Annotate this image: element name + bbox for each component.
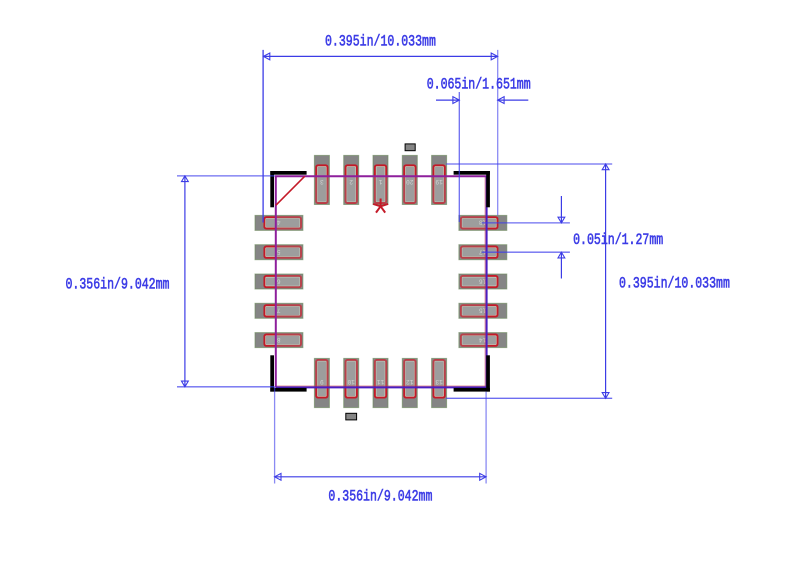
svg-text:12: 12 — [406, 378, 414, 385]
dimension line 0.395in/10.033mm (right vertical) — [602, 164, 609, 398]
svg-text:0.356in/9.042mm: 0.356in/9.042mm — [328, 488, 432, 506]
dimension line 0.065in/1.651mm with outside arrows — [436, 97, 528, 104]
extension line, top lead tips (y=164) — [446, 163, 612, 165]
pad 10 (bottom row) — [344, 358, 359, 407]
extension line, pad 17 centerline — [482, 251, 570, 253]
pad 9 (bottom row) — [314, 358, 329, 407]
dimension line 0.395in/10.033mm (top) — [263, 53, 497, 60]
pad 17 (right column) — [459, 245, 507, 260]
component origin marker (red asterisk) — [373, 199, 388, 213]
pad 6 (left column) — [255, 274, 303, 289]
pad 16 (right column) — [459, 274, 507, 289]
dimension extension line, left lead tips (x=263) — [262, 50, 264, 223]
component body outline right edge (indigo) — [486, 176, 488, 387]
pad 5 (left column) — [255, 245, 303, 260]
silkscreen corner bracket top-right — [454, 171, 490, 207]
dimension line 0.05in/1.27mm pitch, outside arrows — [558, 196, 565, 279]
silkscreen polarity rectangle (top, near pad 20) — [405, 144, 415, 151]
pad 19 (top row) — [432, 155, 447, 204]
component body outline left edge (magenta) — [275, 176, 277, 387]
extension line, body right edge (x=486.1) — [485, 392, 487, 484]
dimension extension line x=459.3 — [458, 92, 460, 222]
svg-text:10: 10 — [347, 378, 355, 385]
silkscreen polarity rectangle (bottom, near pad 10) — [346, 413, 357, 420]
svg-text:3: 3 — [320, 178, 324, 185]
svg-text:2: 2 — [349, 178, 353, 185]
svg-text:0.395in/10.033mm: 0.395in/10.033mm — [325, 33, 436, 51]
silkscreen corner bracket bottom-right — [454, 355, 490, 391]
pad 14 (right column) — [459, 333, 507, 348]
svg-text:7: 7 — [277, 307, 281, 314]
svg-text:0.356in/9.042mm: 0.356in/9.042mm — [66, 276, 170, 294]
svg-text:5: 5 — [277, 248, 281, 255]
pad 15 (right column) — [459, 303, 507, 318]
component body outline top edge (magenta) — [275, 175, 487, 177]
pad 20 (top row) — [402, 155, 417, 204]
svg-text:9: 9 — [320, 378, 324, 385]
silkscreen corner bracket top-left — [270, 171, 306, 207]
dimension line 0.356in/9.042mm (bottom) — [275, 473, 487, 480]
pad 13 (bottom row) — [432, 358, 447, 407]
svg-text:0.05in/1.27mm: 0.05in/1.27mm — [573, 231, 663, 249]
svg-text:8: 8 — [277, 336, 281, 343]
svg-text:4: 4 — [277, 219, 281, 226]
pad 8 (left column) — [255, 333, 303, 348]
svg-text:1: 1 — [378, 178, 382, 185]
svg-text:0.395in/10.033mm: 0.395in/10.033mm — [619, 275, 730, 293]
svg-text:6: 6 — [277, 277, 281, 284]
pad 1 (top row) — [373, 155, 388, 204]
extension line, body left edge (x=274.6) — [274, 387, 276, 484]
pad 4 (left column) — [255, 215, 303, 230]
extension line, pad 18 centerline — [482, 222, 570, 224]
svg-text:11: 11 — [377, 378, 385, 385]
svg-text:20: 20 — [406, 178, 414, 185]
pad 18 (right column) — [459, 215, 507, 230]
extension line, body bottom edge (y=387) — [177, 386, 275, 388]
pad 12 (bottom row) — [402, 358, 417, 407]
extension line, bottom lead tips (y=398) — [446, 397, 612, 399]
svg-text:19: 19 — [435, 178, 443, 185]
pad 11 (bottom row) — [373, 358, 388, 407]
dimension line 0.356in/9.042mm (left vertical) — [182, 176, 189, 387]
component body outline, faint red layer (bottom/right fringe) — [276, 177, 486, 387]
component body outline bottom edge (indigo) — [276, 386, 488, 388]
svg-text:13: 13 — [435, 378, 443, 385]
svg-text:0.065in/1.651mm: 0.065in/1.651mm — [427, 76, 531, 94]
dimension extension line, right lead tips (x=497.7) — [497, 50, 499, 215]
extension line, body top edge (y=176) — [177, 175, 275, 177]
pad 3 (top row) — [314, 155, 329, 204]
pin 1 chamfer diagonal (red) — [276, 176, 305, 205]
silkscreen corner bracket bottom-left — [270, 355, 306, 391]
pad 7 (left column) — [255, 303, 303, 318]
pad 2 (top row) — [344, 155, 359, 204]
